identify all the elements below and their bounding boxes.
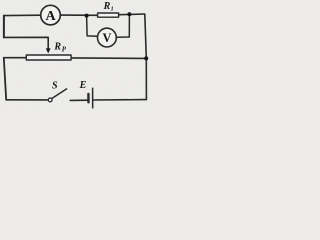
switch S blade (52, 89, 66, 98)
svg-text:R: R (53, 41, 61, 52)
resistor R1 body (98, 13, 119, 17)
svg-text:V: V (103, 31, 112, 45)
wire bottom-left: switch pivot to corner (6, 99, 48, 101)
wire upper-left vertical (wiper feed) (3, 16, 5, 38)
node junction dot left of R1 (85, 14, 89, 18)
wire right side vertical (145, 14, 147, 99)
node junction dot rheostat/right side (144, 56, 148, 60)
node junction dot right of R1 (127, 12, 131, 16)
voltmeter V (meter circle) (98, 28, 117, 47)
svg-text:R: R (103, 1, 111, 12)
wire ammeter to node L (60, 14, 97, 16)
wire voltmeter right branch (116, 14, 129, 37)
wire battery to switch contact (70, 99, 87, 101)
battery E long plate (92, 88, 94, 108)
rheostat RP body (26, 55, 71, 60)
wire bottom: corner to battery (93, 99, 146, 101)
wire resistor R1 to top-right corner (119, 13, 144, 16)
rheostat wiper arrowhead (46, 48, 51, 53)
paper background (0, 0, 152, 114)
wire to rheostat wiper (4, 37, 48, 49)
battery E short plate (87, 94, 89, 102)
wire lower-left vertical (4, 58, 6, 100)
wire rheostat left lead (4, 57, 26, 59)
wire rheostat right lead to node R2 (72, 57, 146, 60)
svg-text:A: A (46, 9, 57, 24)
wire voltmeter left branch (87, 16, 98, 37)
switch S pivot (48, 98, 52, 102)
svg-text:S: S (52, 81, 58, 92)
svg-text:E: E (79, 80, 87, 91)
ammeter A (meter circle) (41, 5, 61, 25)
svg-text:1: 1 (111, 6, 114, 12)
wire top-left to ammeter (4, 14, 41, 16)
